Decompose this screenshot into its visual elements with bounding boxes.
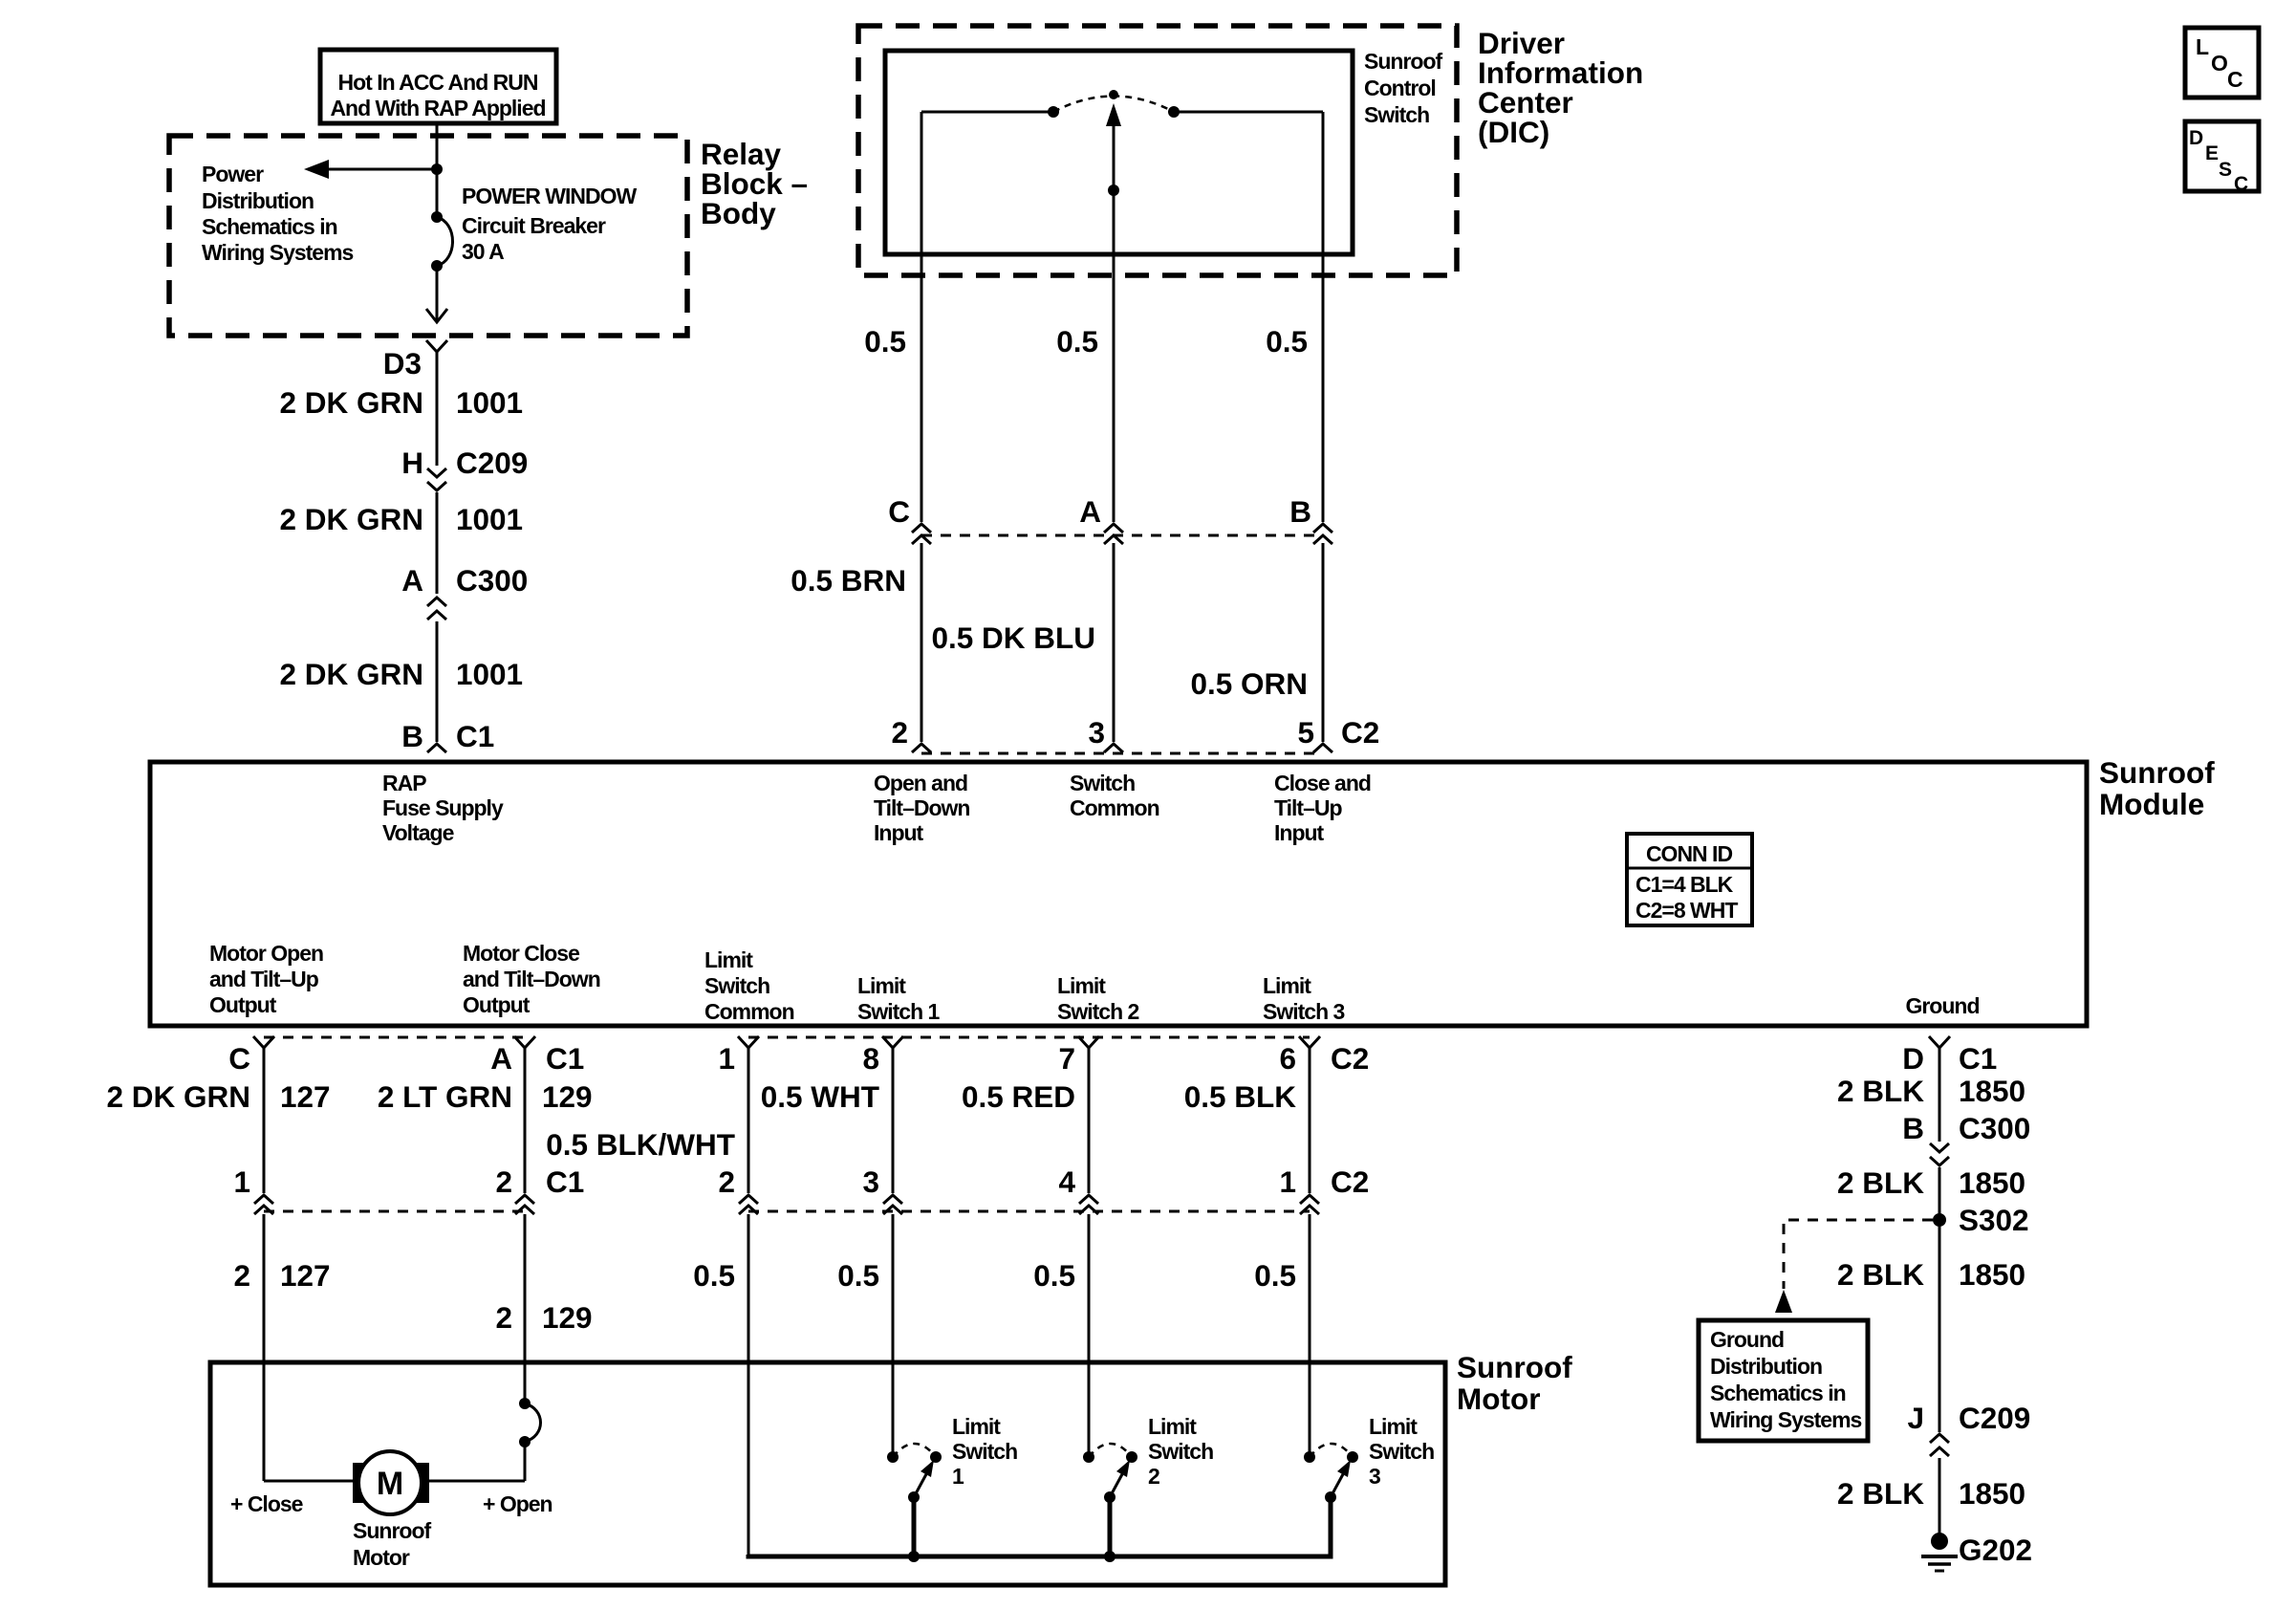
ground terminal D C1 [1929, 1036, 1950, 1048]
svg-text:S: S [2219, 159, 2232, 181]
svg-text:0.5 BRN: 0.5 BRN [791, 563, 906, 598]
svg-text:Control: Control [1364, 76, 1436, 100]
label 2 DK GRN 1001 seg3 [279, 657, 523, 691]
switch right contact wire [1179, 111, 1323, 114]
sunroof module label [2099, 755, 2215, 821]
svg-text:3: 3 [1369, 1464, 1380, 1489]
svg-text:Limit: Limit [1057, 973, 1106, 998]
svg-text:And With RAP Applied: And With RAP Applied [330, 96, 545, 120]
svg-text:2: 2 [495, 1300, 512, 1335]
connector D3 terminal [426, 340, 447, 352]
wire limit sw2 seg2 [1088, 1214, 1091, 1452]
relay block body label [701, 137, 808, 230]
svg-text:6: 6 [1279, 1041, 1296, 1076]
svg-text:2 DK GRN: 2 DK GRN [106, 1079, 250, 1114]
svg-text:0.5: 0.5 [693, 1258, 735, 1293]
svg-text:A: A [1079, 494, 1101, 529]
svg-text:Tilt–Up: Tilt–Up [1274, 795, 1342, 820]
svg-text:0.5 BLK: 0.5 BLK [1184, 1079, 1297, 1114]
svg-text:30 A: 30 A [462, 239, 504, 264]
connector C300 pin B [1902, 1111, 2030, 1165]
label 2 BLK 1850 seg2 [1837, 1165, 2025, 1200]
label 2 127 [233, 1258, 330, 1293]
svg-text:1850: 1850 [1959, 1165, 2025, 1200]
labels 0.5 gauge top [864, 324, 1308, 359]
bus junction sw1 [908, 1551, 920, 1562]
svg-text:Switch: Switch [1070, 771, 1135, 795]
svg-text:0.5: 0.5 [864, 324, 906, 359]
ground G202 [1921, 1533, 1958, 1571]
limit switch 1 [887, 1444, 942, 1556]
svg-text:C1: C1 [1959, 1041, 1997, 1076]
svg-text:3: 3 [1088, 715, 1105, 750]
svg-text:+ Open: + Open [483, 1491, 552, 1516]
svg-text:Switch 2: Switch 2 [1057, 999, 1139, 1024]
label 2 129 [495, 1300, 592, 1335]
svg-text:2 BLK: 2 BLK [1837, 1257, 1924, 1292]
connector C209 pin J [1907, 1401, 2030, 1456]
svg-text:D: D [1902, 1041, 1924, 1076]
sunroof module box [150, 762, 2087, 1026]
svg-text:Hot In ACC And RUN: Hot In ACC And RUN [338, 70, 538, 95]
wire switch common [1113, 122, 1116, 742]
pin label limit switch 2 [1057, 973, 1139, 1024]
svg-text:C209: C209 [456, 446, 528, 480]
svg-text:Distribution: Distribution [202, 188, 314, 213]
svg-text:C: C [888, 494, 910, 529]
svg-text:0.5 RED: 0.5 RED [962, 1079, 1075, 1114]
wire ground seg3 [1939, 1458, 1941, 1535]
wire motor open seg2 [263, 1214, 266, 1481]
sunroof control switch label [1364, 49, 1442, 127]
svg-text:Motor: Motor [353, 1545, 410, 1570]
connector C300 pin A [401, 563, 528, 620]
svg-text:POWER WINDOW: POWER WINDOW [462, 184, 637, 208]
pin label close tilt-up input [1274, 771, 1371, 845]
wire breaker to motor open side [427, 1442, 525, 1481]
svg-text:C1: C1 [456, 719, 494, 753]
svg-text:C: C [2234, 173, 2248, 195]
svg-text:127: 127 [280, 1258, 331, 1293]
svg-text:B: B [1289, 494, 1311, 529]
bus junction sw2 [1104, 1551, 1116, 1562]
wire limit sw1 seg1 [892, 1048, 895, 1193]
svg-text:A: A [490, 1041, 512, 1076]
wire motor close seg1 [524, 1048, 527, 1193]
svg-text:Module: Module [2099, 787, 2204, 821]
svg-text:2 BLK: 2 BLK [1837, 1476, 1924, 1511]
wire limit common seg2 [747, 1214, 750, 1556]
ground distribution note box [1699, 1320, 1868, 1441]
svg-text:2 DK GRN: 2 DK GRN [279, 657, 423, 691]
svg-text:C1: C1 [546, 1164, 584, 1199]
svg-text:M: M [377, 1466, 403, 1502]
svg-text:1850: 1850 [1959, 1476, 2025, 1511]
svg-text:Output: Output [209, 992, 277, 1017]
svg-text:RAP: RAP [382, 771, 426, 795]
svg-text:Close and: Close and [1274, 771, 1371, 795]
svg-text:Sunroof: Sunroof [353, 1518, 431, 1543]
wire 1001 segment 1 [436, 352, 439, 466]
pin label limit switch 1 [857, 973, 941, 1024]
svg-text:C2=8 WHT: C2=8 WHT [1635, 898, 1738, 923]
svg-text:Body: Body [701, 196, 776, 230]
svg-text:0.5: 0.5 [1266, 324, 1308, 359]
svg-text:Limit: Limit [1148, 1414, 1197, 1439]
switch contact dots [1048, 106, 1180, 118]
svg-text:Voltage: Voltage [382, 820, 454, 845]
svg-text:Switch: Switch [952, 1439, 1017, 1464]
pin label limit switch 3 [1263, 973, 1345, 1024]
svg-text:C2: C2 [1341, 715, 1379, 750]
svg-text:1001: 1001 [456, 657, 523, 691]
svg-text:J: J [1907, 1401, 1924, 1435]
wire limit sw3 seg1 [1309, 1048, 1311, 1193]
svg-text:2 BLK: 2 BLK [1837, 1074, 1924, 1108]
dashed link C A B [921, 534, 1323, 537]
motor thermal breaker [519, 1398, 541, 1447]
wire limit common seg1 [747, 1048, 750, 1193]
wire ground seg1 [1939, 1048, 1941, 1142]
wire 1001 segment 2 [436, 492, 439, 594]
svg-text:O: O [2211, 51, 2227, 76]
limit switch 2 label [1148, 1414, 1213, 1489]
svg-text:Switch: Switch [1369, 1439, 1434, 1464]
svg-text:Power: Power [202, 162, 264, 186]
svg-text:C300: C300 [1959, 1111, 2030, 1145]
svg-text:8: 8 [862, 1041, 879, 1076]
wire limit sw1 seg2 [892, 1214, 895, 1452]
pin label motor open tilt-up output [209, 941, 323, 1017]
svg-text:B: B [1902, 1111, 1924, 1145]
svg-text:Common: Common [704, 999, 794, 1024]
svg-text:Ground: Ground [1710, 1327, 1784, 1352]
pin label RAP fuse supply voltage [382, 771, 504, 845]
svg-text:Sunroof: Sunroof [1457, 1350, 1572, 1384]
svg-text:Schematics in: Schematics in [1710, 1381, 1846, 1405]
connector row C A B [888, 494, 1332, 544]
svg-text:0.5: 0.5 [1254, 1258, 1296, 1293]
label 2 DK GRN 1001 seg2 [279, 502, 523, 536]
svg-text:0.5: 0.5 [1056, 324, 1098, 359]
switch rocker dot [1109, 90, 1118, 99]
connector row1 terminals below module [253, 1036, 1320, 1048]
svg-text:1850: 1850 [1959, 1257, 2025, 1292]
desc box [2185, 121, 2259, 195]
svg-text:Ground: Ground [1905, 993, 1979, 1018]
dashed link to ground distribution [1775, 1220, 1933, 1313]
wire to motor close side [264, 1480, 355, 1483]
pin label limit switch common [704, 947, 794, 1024]
svg-text:1001: 1001 [456, 502, 523, 536]
wire breaker to relay block exit [436, 266, 439, 321]
wire close tilt-up input [1322, 112, 1325, 742]
svg-text:127: 127 [280, 1079, 331, 1114]
svg-text:C1: C1 [546, 1041, 584, 1076]
svg-text:129: 129 [542, 1300, 593, 1335]
wire ground seg2 [1939, 1167, 1941, 1432]
switch common arrow [1106, 103, 1121, 126]
connector row 2 3 5 C2 [891, 715, 1379, 752]
label 2 DK GRN 127 [106, 1079, 330, 1114]
junction dot power feed [431, 163, 443, 175]
svg-text:1: 1 [1279, 1164, 1296, 1199]
row1 pin labels [228, 1041, 1369, 1076]
sunroof motor box [210, 1362, 1445, 1585]
label 2 BLK 1850 seg3 [1837, 1257, 2025, 1292]
svg-text:(DIC): (DIC) [1478, 115, 1549, 149]
svg-text:Limit: Limit [704, 947, 753, 972]
svg-text:and Tilt–Down: and Tilt–Down [463, 967, 600, 991]
limit switch 1 label [952, 1414, 1017, 1489]
wire limit sw3 seg2 [1309, 1214, 1311, 1452]
conn id box [1627, 834, 1752, 925]
limit switch 2 [1083, 1444, 1137, 1556]
svg-text:Distribution: Distribution [1710, 1354, 1822, 1379]
power distribution note [202, 162, 354, 265]
svg-text:Limit: Limit [857, 973, 906, 998]
svg-text:2 LT GRN: 2 LT GRN [378, 1079, 512, 1114]
sunroof control switch box [885, 51, 1353, 254]
switch common dot [1108, 185, 1119, 196]
svg-text:Wiring Systems: Wiring Systems [202, 240, 354, 265]
svg-text:Motor: Motor [1457, 1382, 1540, 1416]
svg-text:H: H [401, 446, 423, 480]
svg-text:2: 2 [718, 1164, 735, 1199]
svg-text:Sunroof: Sunroof [1364, 49, 1442, 74]
svg-text:C300: C300 [456, 563, 528, 598]
svg-text:B: B [401, 719, 423, 753]
svg-text:1850: 1850 [1959, 1074, 2025, 1108]
label sunroof motor inner [353, 1518, 431, 1570]
svg-text:2 BLK: 2 BLK [1837, 1165, 1924, 1200]
svg-text:3: 3 [862, 1164, 879, 1199]
label 2 LT GRN 129 [378, 1079, 593, 1114]
svg-text:C209: C209 [1959, 1401, 2030, 1435]
wire limit sw2 seg1 [1088, 1048, 1091, 1193]
dashed link row1 C2 group [748, 1036, 1310, 1039]
svg-text:Circuit Breaker: Circuit Breaker [462, 213, 606, 238]
wire motor open seg1 [263, 1048, 266, 1193]
svg-text:Limit: Limit [952, 1414, 1001, 1439]
svg-text:D: D [2189, 127, 2203, 149]
dashed link row2 C2 group [748, 1210, 1310, 1213]
svg-text:Common: Common [1070, 795, 1159, 820]
wire motor close seg2 [524, 1214, 527, 1403]
svg-text:2: 2 [1148, 1464, 1159, 1489]
svg-text:2: 2 [495, 1164, 512, 1199]
wire 1001 segment 3 [436, 621, 439, 742]
svg-text:1: 1 [233, 1164, 250, 1199]
svg-text:and Tilt–Up: and Tilt–Up [209, 967, 319, 991]
svg-text:C: C [2227, 67, 2242, 92]
switch rocker dashed arc [1053, 97, 1174, 113]
svg-text:0.5: 0.5 [837, 1258, 879, 1293]
svg-text:2: 2 [233, 1258, 250, 1293]
svg-text:Wiring Systems: Wiring Systems [1710, 1407, 1862, 1432]
svg-text:1001: 1001 [456, 385, 523, 420]
limit switch 3 label [1369, 1414, 1434, 1489]
svg-text:7: 7 [1058, 1041, 1075, 1076]
DIC label [1478, 26, 1643, 149]
svg-text:L: L [2196, 34, 2209, 59]
svg-text:Limit: Limit [1369, 1414, 1418, 1439]
svg-text:C2: C2 [1331, 1164, 1369, 1199]
svg-text:+ Close: + Close [230, 1491, 303, 1516]
label 2 BLK 1850 seg4 [1837, 1476, 2025, 1511]
svg-text:0.5 ORN: 0.5 ORN [1190, 666, 1308, 701]
svg-text:Schematics in: Schematics in [202, 214, 337, 239]
switch left contact wire [921, 111, 1049, 114]
pin label motor close tilt-down output [463, 941, 600, 1017]
svg-text:Sunroof: Sunroof [2099, 755, 2215, 790]
svg-text:1: 1 [718, 1041, 735, 1076]
connector row2 terminals [254, 1195, 1319, 1214]
svg-text:0.5: 0.5 [1033, 1258, 1075, 1293]
DIC dashed box [858, 26, 1457, 275]
circuit breaker label [462, 184, 637, 264]
svg-text:Input: Input [1274, 820, 1325, 845]
svg-text:A: A [401, 563, 423, 598]
sunroof motor outside label [1457, 1350, 1572, 1416]
svg-text:Input: Input [874, 820, 924, 845]
svg-text:Motor Open: Motor Open [209, 941, 323, 966]
limit switch 3 [1304, 1444, 1358, 1556]
power source box Hot In ACC [320, 50, 556, 123]
svg-text:4: 4 [1058, 1164, 1075, 1199]
circuit breaker CB 30A [431, 211, 453, 272]
svg-text:C1=4 BLK: C1=4 BLK [1635, 872, 1734, 897]
svg-text:0.5 DK BLU: 0.5 DK BLU [931, 620, 1095, 655]
svg-text:CONN ID: CONN ID [1646, 841, 1733, 866]
svg-text:Output: Output [463, 992, 531, 1017]
label 2 DK GRN 1001 seg1 [279, 385, 523, 420]
svg-text:0.5 BLK/WHT: 0.5 BLK/WHT [546, 1127, 735, 1162]
row2 pin labels [233, 1164, 1369, 1199]
arrow to power distribution [304, 160, 437, 179]
svg-text:Switch: Switch [1364, 102, 1429, 127]
svg-text:Switch 3: Switch 3 [1263, 999, 1345, 1024]
svg-text:Switch: Switch [704, 973, 769, 998]
svg-text:Tilt–Down: Tilt–Down [874, 795, 969, 820]
relay block body dashed box [169, 136, 687, 336]
loc box [2185, 28, 2259, 98]
svg-text:Switch: Switch [1148, 1439, 1213, 1464]
pin label open tilt-down input [874, 771, 969, 845]
svg-text:S302: S302 [1959, 1203, 2029, 1237]
svg-text:C: C [228, 1041, 250, 1076]
label 2 BLK 1850 seg1 [1837, 1074, 2025, 1108]
motor M1 sunroof motor [353, 1451, 429, 1514]
connector C1 pin B [401, 719, 494, 753]
arrow exit relay block [426, 309, 447, 322]
wire open tilt-down input [921, 112, 923, 742]
svg-text:2 DK GRN: 2 DK GRN [279, 502, 423, 536]
svg-text:0.5 WHT: 0.5 WHT [761, 1079, 879, 1114]
pin label switch common [1070, 771, 1159, 820]
svg-text:5: 5 [1297, 715, 1314, 750]
svg-text:129: 129 [542, 1079, 593, 1114]
svg-text:Open and: Open and [874, 771, 967, 795]
dashed link row2 C1 group [264, 1210, 525, 1213]
svg-text:E: E [2205, 142, 2219, 164]
svg-text:Switch 1: Switch 1 [857, 999, 941, 1024]
svg-text:Fuse Supply: Fuse Supply [382, 795, 504, 820]
svg-text:D3: D3 [383, 346, 422, 381]
svg-text:G202: G202 [1959, 1533, 2032, 1567]
dashed link 2 3 5 [921, 752, 1323, 755]
dashed link row1 C1 group [264, 1036, 525, 1039]
svg-text:Limit: Limit [1263, 973, 1311, 998]
connector C209 pin H [401, 446, 528, 490]
svg-text:1: 1 [952, 1464, 964, 1489]
splice S302 [1933, 1213, 1946, 1227]
svg-text:2 DK GRN: 2 DK GRN [279, 385, 423, 420]
limit switch common bus [748, 1497, 1331, 1556]
wire hot feed to breaker [436, 123, 439, 217]
svg-text:C2: C2 [1331, 1041, 1369, 1076]
svg-text:Motor Close: Motor Close [463, 941, 579, 966]
svg-text:2: 2 [891, 715, 908, 750]
